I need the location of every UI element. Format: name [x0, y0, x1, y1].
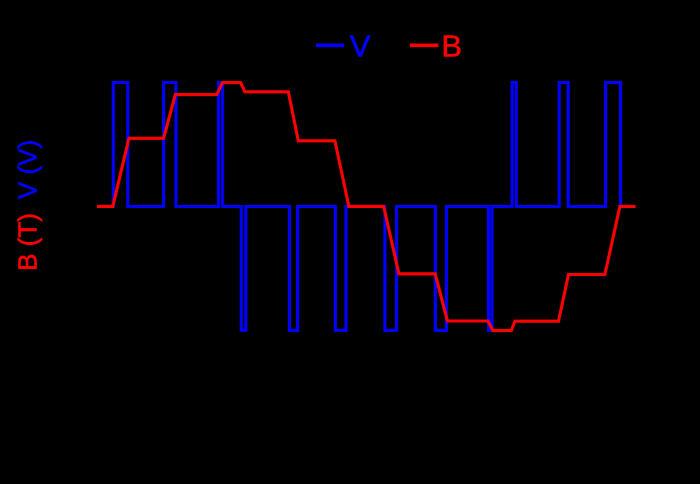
svg-text:B (T): B (T)	[13, 213, 43, 271]
legend B line	[410, 43, 438, 47]
blue V waveform	[97, 83, 636, 331]
svg-text:B: B	[441, 28, 462, 63]
legend V line	[316, 43, 344, 47]
red B waveform	[97, 83, 636, 331]
svg-text:V: V	[350, 28, 371, 63]
svg-text:V (V): V (V)	[13, 140, 43, 199]
